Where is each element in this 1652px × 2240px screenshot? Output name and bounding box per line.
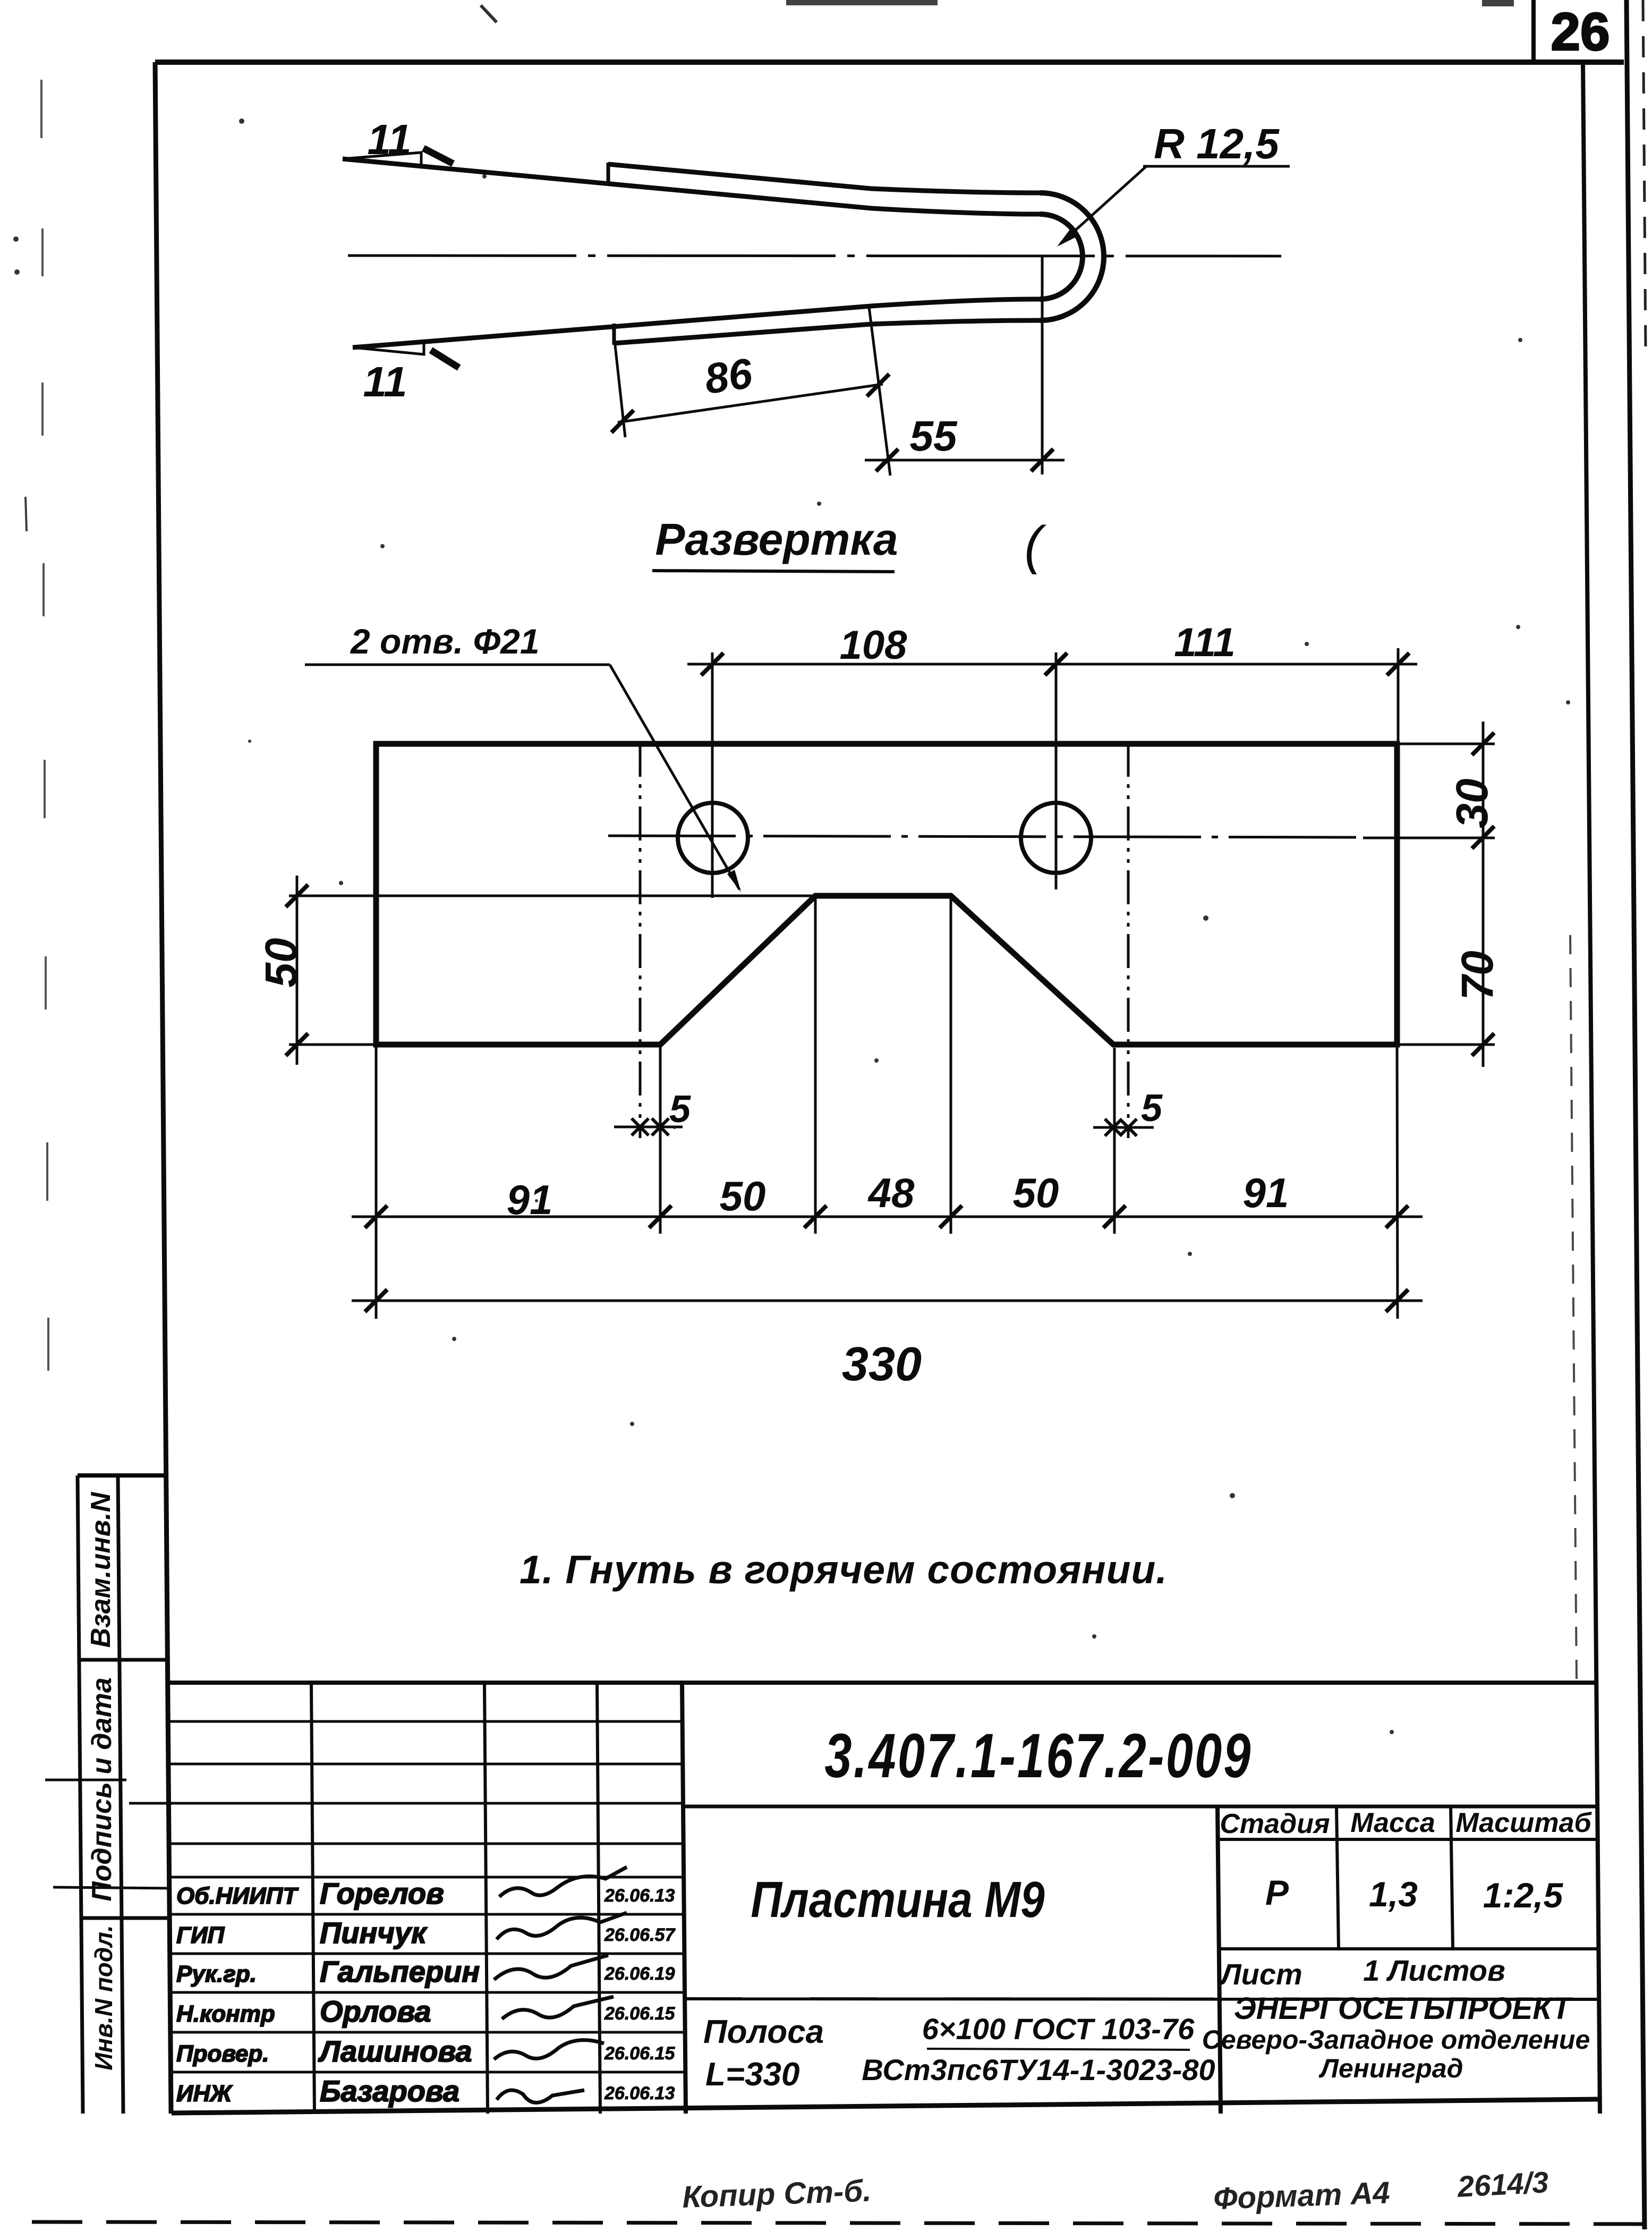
signature table row line 9 bbox=[168, 2031, 684, 2034]
material spec underline bbox=[927, 2049, 1190, 2050]
right hole D21 bbox=[1021, 803, 1091, 873]
svg-text:Гальперин: Гальперин bbox=[320, 1955, 480, 1988]
svg-text:6×100 ГОСТ 103-76: 6×100 ГОСТ 103-76 bbox=[922, 2012, 1195, 2046]
top view: lower tip leader tick bbox=[431, 350, 459, 368]
label shelf for R 12,5 bbox=[1143, 165, 1290, 168]
svg-text:2 отв. Ф21: 2 отв. Ф21 bbox=[350, 622, 540, 661]
svg-text:Северо-Западное отделение: Северо-Западное отделение bbox=[1202, 2025, 1590, 2055]
faint dashed line left of inner right border bbox=[1570, 935, 1577, 1679]
outer sheet right edge line bbox=[1627, 0, 1645, 2229]
top view: bend inner arc R12.5 bbox=[1040, 214, 1083, 299]
svg-text:1,3: 1,3 bbox=[1369, 1874, 1418, 1914]
signature table row line 5 bbox=[168, 1876, 684, 1879]
top view: lower tip dimension sliver arrow bbox=[353, 342, 424, 354]
left hole D21 bbox=[678, 803, 748, 873]
svg-text:26.06.13: 26.06.13 bbox=[604, 2083, 675, 2103]
trapezoid left corner extension line bbox=[814, 897, 817, 1234]
svg-text:Масса: Масса bbox=[1350, 1808, 1435, 1838]
svg-text:48: 48 bbox=[867, 1169, 915, 1216]
right bend axis line (dash-dot-dot) bbox=[1127, 743, 1130, 1138]
dim line 108 / 111 bbox=[687, 663, 1417, 666]
dim 30/70 right: hole axis extension bbox=[1363, 837, 1495, 839]
left bend axis line (dash-dot-dot) bbox=[639, 743, 642, 1138]
right edge dashed scan line top bbox=[1643, 0, 1646, 351]
right edge upward extension line bbox=[1397, 648, 1400, 745]
signature table row line 7 bbox=[168, 1953, 684, 1955]
hole callout leader arrowhead bbox=[727, 870, 741, 892]
title block bottom edge bbox=[172, 2099, 1600, 2113]
svg-text:1 Листов: 1 Листов bbox=[1363, 1954, 1505, 1987]
signature table row line 2 bbox=[168, 1763, 684, 1766]
dim 50 left: vertical dimension line bbox=[296, 876, 299, 1065]
svg-text:330: 330 bbox=[842, 1338, 922, 1391]
right notch corner extension line bbox=[1113, 1048, 1116, 1234]
small jut line at row 3394 bbox=[129, 1802, 170, 1805]
signature table row line 8 bbox=[168, 1991, 684, 1994]
svg-text:Ленинград: Ленинград bbox=[1318, 2054, 1463, 2083]
svg-text:11: 11 bbox=[363, 358, 407, 405]
dim 30/70 right: top edge extension bbox=[1397, 743, 1495, 745]
svg-text:Провер.: Провер. bbox=[176, 2041, 269, 2067]
dim 50 left: bottom extension (bottom edge extended) bbox=[289, 1043, 377, 1046]
svg-text:30: 30 bbox=[1447, 778, 1497, 828]
svg-text:1. Гнуть в горячем состоянии.: 1. Гнуть в горячем состоянии. bbox=[520, 1547, 1168, 1592]
svg-text:L=330: L=330 bbox=[705, 2056, 800, 2093]
svg-text:26.06.15: 26.06.15 bbox=[604, 2004, 675, 2024]
svg-text:1:2,5: 1:2,5 bbox=[1483, 1876, 1564, 1915]
signature row 2 signature squiggle bbox=[497, 1913, 627, 1939]
svg-text:Развертка: Развертка bbox=[655, 514, 898, 564]
dim row 91/50/48/50/91 dimension line bbox=[352, 1216, 1423, 1218]
inner frame right border bbox=[1583, 62, 1600, 2114]
left strip inner divider vertical bbox=[118, 1475, 123, 2114]
left strip cell divider 2 bbox=[80, 1916, 169, 1920]
list row bottom line / polosa cell top bbox=[685, 1999, 1599, 1999]
left strip outer vertical line bbox=[78, 1475, 83, 2114]
dim 86: right extension line (shared with dim 55) bbox=[869, 307, 890, 476]
svg-text:26.06.15: 26.06.15 bbox=[604, 2043, 675, 2064]
small mark left margin bbox=[25, 497, 27, 531]
scan diagonal mark top bbox=[481, 5, 497, 22]
svg-text:91: 91 bbox=[1243, 1169, 1289, 1216]
svg-text:5: 5 bbox=[1141, 1087, 1163, 1130]
top view: lower arm taper step bbox=[612, 324, 616, 345]
svg-text:11: 11 bbox=[367, 116, 411, 163]
left notch corner extension line bbox=[659, 1046, 662, 1234]
sheet number box 26 top right bbox=[1531, 0, 1536, 64]
stadia value row bottom line bbox=[1220, 1947, 1598, 1950]
right hole vertical center/extension line bbox=[1055, 652, 1058, 889]
leader line for R 12,5 bbox=[1060, 166, 1146, 244]
svg-text:Копир Ст-б.: Копир Ст-б. bbox=[682, 2174, 872, 2214]
title block top edge bbox=[168, 1681, 1596, 1685]
svg-text:50: 50 bbox=[720, 1173, 766, 1219]
dim 86: left extension line bbox=[613, 326, 625, 437]
small jut line at signature rows level bbox=[53, 1887, 170, 1888]
svg-text:5: 5 bbox=[669, 1088, 691, 1131]
svg-text:26.06.13: 26.06.13 bbox=[604, 1886, 675, 1906]
signature table row line 6 bbox=[168, 1913, 684, 1916]
top view: upper tip dimension sliver arrow bbox=[343, 152, 421, 166]
svg-text:Лист: Лист bbox=[1219, 1957, 1302, 1991]
colon specks left margin bbox=[13, 236, 19, 242]
svg-text:ЭНЕРГОСЕТЬПРОЕКТ: ЭНЕРГОСЕТЬПРОЕКТ bbox=[1234, 1991, 1573, 2026]
stadia header row bottom line bbox=[1219, 1838, 1598, 1841]
dim 330 dimension line bbox=[352, 1300, 1423, 1302]
svg-text:ВСт3пс6ТУ14-1-3023-80: ВСт3пс6ТУ14-1-3023-80 bbox=[862, 2053, 1215, 2086]
top view: bend center vertical extension line bbox=[1041, 257, 1044, 474]
svg-text:(: ( bbox=[1024, 515, 1046, 575]
top view: lower arm outer (lower) surface line from taper step to bend bbox=[614, 320, 1040, 343]
signature table row line 1 bbox=[168, 1720, 684, 1723]
svg-text:3.407.1-167.2-009: 3.407.1-167.2-009 bbox=[824, 1721, 1252, 1791]
svg-text:26: 26 bbox=[1551, 2, 1610, 62]
scan smear top edge 1 bbox=[786, 0, 938, 5]
signature row 3 signature squiggle bbox=[494, 1955, 608, 1980]
holes horizontal axis line bbox=[608, 836, 1363, 837]
svg-text:Инв.N подл.: Инв.N подл. bbox=[90, 1925, 117, 2070]
svg-text:55: 55 bbox=[910, 412, 958, 460]
signature table vertical 3 bbox=[597, 1683, 600, 2114]
svg-text:Горелов: Горелов bbox=[320, 1877, 444, 1910]
hole callout leader line bbox=[610, 665, 739, 889]
title block main divider vertical bbox=[682, 1683, 686, 2114]
signature row 6 signature squiggle bbox=[497, 2090, 584, 2103]
svg-text:Взам.инв.N: Взам.инв.N bbox=[86, 1491, 116, 1648]
svg-text:Базарова: Базарова bbox=[320, 2074, 459, 2108]
svg-text:26.06.19: 26.06.19 bbox=[604, 1964, 675, 1984]
svg-text:Формат А4: Формат А4 bbox=[1213, 2175, 1390, 2216]
bottom dashed sheet edge line bbox=[32, 2222, 1647, 2224]
svg-text:ГИП: ГИП bbox=[176, 1922, 225, 1948]
top view: upper tip leader tick bbox=[423, 148, 453, 164]
top view: upper arm taper step bbox=[607, 163, 610, 182]
dim 5 right: dimension line bbox=[1093, 1126, 1154, 1129]
signature table vertical 1 bbox=[311, 1683, 314, 2114]
plate left edge downward extension bbox=[375, 1046, 378, 1319]
main frame left border bbox=[155, 62, 171, 2114]
svg-text:Пластина М9: Пластина М9 bbox=[751, 1871, 1045, 1928]
top view: horizontal center line (axis) bbox=[348, 256, 1281, 256]
svg-text:50: 50 bbox=[256, 938, 306, 987]
signature row 4 signature squiggle bbox=[502, 1997, 614, 2019]
svg-text:Подпись и дата: Подпись и дата bbox=[87, 1677, 117, 1902]
masshtab column vertical bbox=[1451, 1806, 1453, 1949]
dim 50 left: top extension line bbox=[289, 895, 816, 897]
svg-text:R 12,5: R 12,5 bbox=[1154, 120, 1280, 167]
left strip top edge bbox=[78, 1473, 167, 1478]
main frame top border bbox=[155, 60, 1624, 65]
svg-text:91: 91 bbox=[507, 1176, 553, 1223]
signature table row line 4 bbox=[168, 1843, 684, 1845]
top view: bend outer arc R18.5 bbox=[1040, 193, 1104, 320]
massa column vertical bbox=[1336, 1806, 1339, 1949]
left paper edge broken dashes bbox=[40, 80, 42, 138]
svg-text:Р: Р bbox=[1265, 1873, 1289, 1912]
flat pattern plate outline bbox=[376, 744, 1397, 1045]
stadia grid left vertical bbox=[1217, 1806, 1221, 2114]
arrowhead of R 12,5 leader bbox=[1057, 230, 1076, 247]
svg-text:Масштаб: Масштаб bbox=[1455, 1808, 1592, 1838]
svg-text:Орлова: Орлова bbox=[320, 1995, 431, 2028]
svg-text:ИНЖ: ИНЖ bbox=[176, 2081, 233, 2107]
dim 30/70 right: vertical dimension line bbox=[1482, 722, 1485, 1067]
svg-text:26.06.57: 26.06.57 bbox=[604, 1925, 676, 1945]
scattered scan specks bbox=[239, 118, 244, 124]
plate right edge downward extension bbox=[1397, 1046, 1398, 1319]
signature row 5 signature squiggle bbox=[494, 2040, 604, 2059]
hole callout underline shelf bbox=[305, 664, 610, 666]
dim 30/70 right: bottom edge extension bbox=[1397, 1043, 1495, 1046]
svg-text:70: 70 bbox=[1452, 951, 1502, 1000]
signature row 1 signature squiggle bbox=[499, 1867, 627, 1897]
dim 86: dimension line bbox=[618, 384, 883, 422]
svg-text:Н.контр: Н.контр bbox=[176, 2001, 275, 2027]
svg-text:Стадия: Стадия bbox=[1220, 1809, 1330, 1839]
svg-text:50: 50 bbox=[1013, 1169, 1059, 1216]
designation cell bottom line bbox=[684, 1805, 1598, 1809]
dim 55: dimension line bbox=[865, 459, 1065, 462]
svg-text:2614/3: 2614/3 bbox=[1456, 2165, 1549, 2203]
svg-text:Пинчук: Пинчук bbox=[320, 1916, 428, 1949]
svg-text:Лашинова: Лашинова bbox=[318, 2034, 472, 2068]
svg-text:108: 108 bbox=[840, 623, 908, 668]
top view: upper arm outer (upper) surface line from taper step to bend bbox=[608, 164, 1040, 193]
left strip cell divider 1 bbox=[79, 1658, 168, 1662]
signature table vertical 2 bbox=[484, 1683, 488, 2114]
svg-text:Рук.гр.: Рук.гр. bbox=[176, 1961, 257, 1987]
dim 5 left: dimension line bbox=[614, 1126, 683, 1129]
svg-text:86: 86 bbox=[702, 349, 755, 403]
title underline bbox=[652, 571, 895, 572]
top view: lower arm inner (upper) surface line from feathered tip to bend bbox=[353, 299, 1040, 347]
trapezoid right corner extension line bbox=[950, 897, 952, 1234]
left hole vertical center/extension line bbox=[711, 652, 714, 898]
svg-text:Об.НИИПТ: Об.НИИПТ bbox=[176, 1883, 299, 1909]
signature table row line 3 bbox=[168, 1802, 684, 1805]
svg-text:Полоса: Полоса bbox=[703, 2014, 824, 2050]
fold mark line bbox=[45, 1779, 126, 1781]
scan smear top edge 2 bbox=[1482, 0, 1514, 6]
svg-text:111: 111 bbox=[1174, 620, 1236, 665]
signature table row line 10 bbox=[168, 2071, 684, 2074]
top view: upper arm inner (lower) surface line from feathered tip to bend bbox=[343, 159, 1040, 214]
